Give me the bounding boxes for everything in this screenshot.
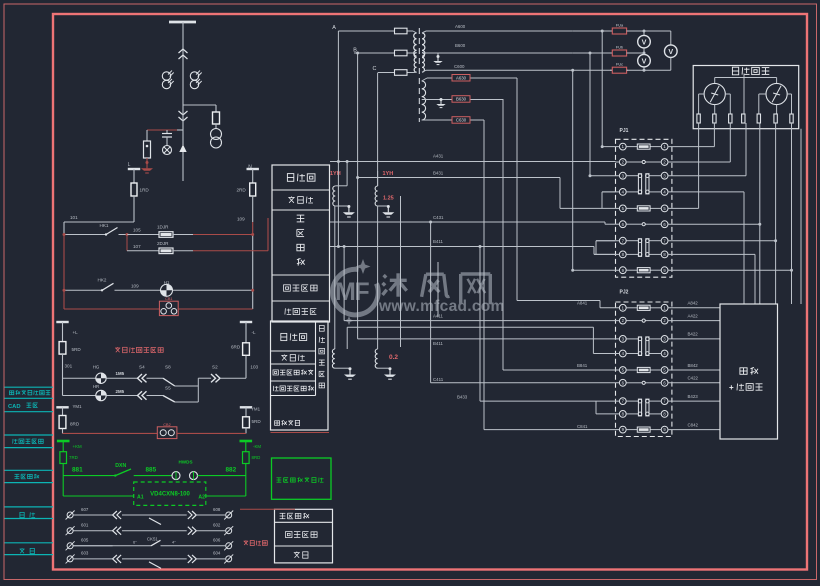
svg-text:A422: A422 xyxy=(688,313,699,318)
svg-text:-L: -L xyxy=(252,330,257,335)
svg-text:5RD: 5RD xyxy=(252,419,262,424)
svg-text:+KM: +KM xyxy=(73,444,82,449)
svg-text:2M5: 2M5 xyxy=(116,389,125,394)
svg-text:A630: A630 xyxy=(456,75,467,80)
svg-text:C600: C600 xyxy=(454,64,465,69)
svg-text:FUb: FUb xyxy=(616,46,623,50)
svg-text:C431: C431 xyxy=(433,215,444,220)
svg-text:C841: C841 xyxy=(577,424,588,429)
svg-text:L: L xyxy=(128,162,131,168)
svg-text:601: 601 xyxy=(81,523,89,528)
svg-text:C842: C842 xyxy=(688,422,699,427)
svg-text:HG: HG xyxy=(93,365,100,370)
svg-text:8RD: 8RD xyxy=(70,422,80,427)
svg-text:-KM: -KM xyxy=(253,444,261,449)
svg-text:603: 603 xyxy=(81,551,89,556)
svg-text:1YH: 1YH xyxy=(330,171,341,177)
svg-text:A411: A411 xyxy=(433,313,443,318)
svg-text:HWDS: HWDS xyxy=(178,460,192,465)
svg-text:6": 6" xyxy=(133,539,137,544)
svg-text:6RD: 6RD xyxy=(231,345,241,350)
svg-text:881: 881 xyxy=(72,466,83,473)
svg-text:B841: B841 xyxy=(577,363,588,368)
svg-text:FUa: FUa xyxy=(616,24,624,28)
svg-text:YM1: YM1 xyxy=(251,407,261,412)
svg-text:YM1: YM1 xyxy=(73,404,83,409)
svg-text:S2: S2 xyxy=(212,364,218,369)
svg-text:B411: B411 xyxy=(433,239,443,244)
svg-text:A842: A842 xyxy=(688,301,699,306)
svg-text:107: 107 xyxy=(133,244,141,249)
svg-text:1RD: 1RD xyxy=(140,188,150,193)
svg-text:B842: B842 xyxy=(688,363,699,368)
svg-text:0.2: 0.2 xyxy=(389,354,398,361)
svg-text:A841: A841 xyxy=(577,301,588,306)
svg-text:+L: +L xyxy=(73,330,79,335)
svg-text:B433: B433 xyxy=(457,395,468,400)
svg-text:A600: A600 xyxy=(455,24,466,29)
svg-text:V: V xyxy=(642,37,647,46)
svg-text:+: + xyxy=(729,383,734,392)
svg-text:105: 105 xyxy=(133,228,141,233)
svg-text:B600: B600 xyxy=(455,43,466,48)
svg-text:CB1: CB1 xyxy=(165,297,172,301)
svg-text:B422: B422 xyxy=(688,332,699,337)
svg-text:101: 101 xyxy=(70,215,78,220)
svg-text:S4: S4 xyxy=(139,364,145,369)
svg-text:B411: B411 xyxy=(433,341,443,346)
svg-text:A1: A1 xyxy=(137,494,144,500)
svg-text:604: 604 xyxy=(213,551,221,556)
svg-text:C: C xyxy=(373,66,377,72)
svg-text:301: 301 xyxy=(65,364,73,369)
svg-text:1.25: 1.25 xyxy=(383,196,394,202)
svg-text:CK51: CK51 xyxy=(147,536,159,541)
svg-text:S8: S8 xyxy=(165,364,171,369)
svg-text:8RD: 8RD xyxy=(252,455,261,460)
svg-text:PJ2: PJ2 xyxy=(620,290,629,296)
svg-text:VD4CXN8-100: VD4CXN8-100 xyxy=(150,492,190,498)
svg-text:HK1: HK1 xyxy=(100,223,109,228)
svg-text:PJ1: PJ1 xyxy=(620,128,629,134)
svg-text:A: A xyxy=(332,25,336,31)
svg-text:607: 607 xyxy=(81,507,89,512)
svg-text:1M5: 1M5 xyxy=(116,371,125,376)
svg-text:MF: MF xyxy=(335,278,369,306)
svg-text:C411: C411 xyxy=(433,377,444,382)
svg-text:602: 602 xyxy=(213,523,221,528)
svg-text:V: V xyxy=(642,56,647,65)
svg-text:2DJR: 2DJR xyxy=(157,241,169,246)
svg-text:1DJR: 1DJR xyxy=(157,225,169,230)
svg-text:4": 4" xyxy=(172,539,176,544)
svg-text:V: V xyxy=(668,47,673,56)
svg-text:109: 109 xyxy=(131,283,139,288)
svg-text:C422: C422 xyxy=(688,376,699,381)
svg-text:882: 882 xyxy=(226,466,237,473)
svg-text:109: 109 xyxy=(237,217,245,222)
svg-text:B431: B431 xyxy=(433,171,444,176)
svg-text:606: 606 xyxy=(213,538,221,543)
svg-text:DXN: DXN xyxy=(115,463,126,469)
svg-text:A431: A431 xyxy=(433,154,444,159)
svg-text:FUc: FUc xyxy=(616,63,623,67)
svg-text:7RD: 7RD xyxy=(69,455,78,460)
svg-text:B423: B423 xyxy=(688,394,699,399)
svg-text:HK2: HK2 xyxy=(98,278,107,283)
svg-text:5RD: 5RD xyxy=(72,347,82,352)
svg-text:608: 608 xyxy=(213,507,221,512)
svg-text:1YH: 1YH xyxy=(383,171,394,177)
svg-text:605: 605 xyxy=(81,538,89,543)
svg-text:HR: HR xyxy=(93,384,99,389)
svg-text:CAD: CAD xyxy=(8,404,21,410)
svg-text:S5: S5 xyxy=(165,385,171,390)
svg-text:B630: B630 xyxy=(456,97,467,102)
svg-text:A2: A2 xyxy=(198,494,205,500)
svg-text:CB2: CB2 xyxy=(163,423,170,427)
svg-text:885: 885 xyxy=(146,466,157,473)
svg-text:2RD: 2RD xyxy=(237,188,247,193)
svg-text:C630: C630 xyxy=(456,118,467,123)
svg-text:103: 103 xyxy=(250,364,258,369)
